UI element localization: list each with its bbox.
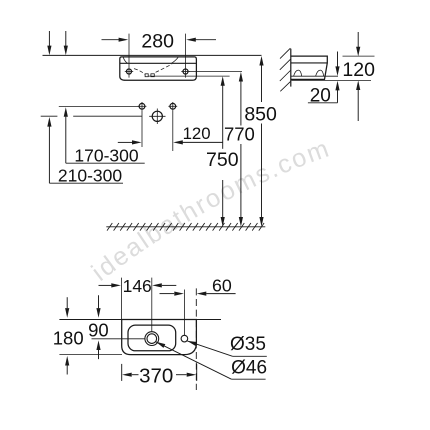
rim curve mark right: [172, 57, 179, 63]
dimension 280 right arrow: [196, 39, 217, 41]
dim 370 tick right: [196, 364, 198, 381]
drain detail square 2: [151, 74, 154, 77]
svg-text:Ø35: Ø35: [230, 334, 266, 355]
extension line 280 right: [185, 34, 187, 78]
arrows: 770: [239, 72, 243, 82]
dimension 770 line lower: [240, 144, 242, 217]
dim 370 tick left: [121, 364, 123, 381]
plan top edge extension line: [59, 319, 221, 321]
arrows: 280: [119, 38, 129, 42]
underline 20: [308, 102, 338, 104]
svg-text:20: 20: [310, 85, 331, 106]
supply cross symbol 1: [139, 103, 145, 109]
basin rim lower edge line: [120, 62, 197, 64]
dimension 850 line upper: [261, 65, 263, 102]
leader line O46: [156, 342, 232, 379]
top extension line: [343, 55, 375, 57]
underline 170-300: [66, 162, 145, 164]
dimension 850 line lower: [261, 124, 263, 218]
left top arrow 2 (170-300 upper): [65, 31, 67, 47]
inner bowl: [128, 325, 176, 351]
rim curve mark left: [123, 57, 127, 63]
dimension 120 (upper) left arrow shaft: [118, 141, 133, 143]
dim 180 up shaft: [66, 365, 68, 374]
faucet centre line: [92, 338, 146, 340]
wall hatching: [280, 48, 291, 91]
arrow: leader O46: [155, 340, 165, 348]
dimension 770 line upper: [240, 81, 242, 126]
arrows: 370: [122, 373, 132, 377]
arrows: detail 20: [335, 66, 339, 76]
svg-text:Ø46: Ø46: [231, 358, 267, 379]
svg-text:280: 280: [141, 31, 174, 53]
bowl dashed outline right: [156, 64, 172, 72]
basin section outline: [291, 56, 328, 79]
left top arrow 1 (210-300 upper): [48, 31, 50, 47]
basin inner bottom line: [291, 75, 338, 77]
dimension 750 line lower: [222, 180, 224, 217]
wall vertical line: [290, 49, 292, 87]
extension from cross2 down: [172, 111, 174, 151]
watermark idealbathrooms.com: [100, 152, 341, 282]
fixing hole cross left (front view): [127, 69, 132, 74]
dim 20 up shaft + leader: [337, 90, 339, 103]
svg-text:120: 120: [342, 59, 375, 81]
dimension 210-300 vertical line: [48, 126, 50, 183]
faucet hole outer: [145, 332, 159, 346]
basin front outline: [120, 57, 197, 80]
arrow: leader O35: [187, 339, 197, 346]
floor hatching: [107, 223, 264, 231]
svg-text:146: 146: [123, 276, 152, 296]
770 reference line: [189, 71, 242, 73]
bowl bottom line: [148, 75, 196, 77]
arrows: 120 upper: [132, 140, 142, 144]
holes reference line y=106.5: [59, 105, 139, 107]
arrows: 90: [96, 308, 100, 318]
dim 90 up shaft: [98, 350, 100, 359]
dimension 750 line upper: [222, 85, 224, 149]
fixing hole cross right (front view): [183, 69, 188, 74]
underline O35: [233, 355, 267, 357]
svg-text:170-300: 170-300: [74, 146, 138, 166]
svg-text:370: 370: [139, 365, 173, 388]
svg-text:770: 770: [224, 124, 255, 145]
ext line 60 left (small hole up): [183, 290, 185, 336]
floor line: [106, 226, 265, 228]
basin section rim line: [291, 62, 328, 64]
dim 60 left arrow shaft: [160, 293, 175, 295]
dim 370 line right: [176, 374, 187, 376]
dim 146 right arrow shaft: [162, 284, 177, 286]
dim 120 down shaft: [357, 32, 359, 47]
svg-text:90: 90: [88, 319, 109, 340]
arrows: 170-300 / 210-300: [64, 107, 68, 117]
dim 60 right arrow shaft: [206, 293, 235, 295]
svg-text:210-300: 210-300: [58, 165, 122, 185]
supply cross symbol 2: [170, 103, 176, 109]
dashed wall-side line: [195, 288, 197, 390]
svg-text:850: 850: [244, 104, 277, 126]
faucet hole inner: [147, 334, 157, 344]
svg-text:180: 180: [53, 328, 84, 349]
wall reference line (front view top): [43, 54, 262, 56]
dimension 120 (upper) right shaft to 750 line: [182, 141, 223, 143]
leader line O35: [187, 341, 232, 356]
bottom extension line: [292, 80, 372, 82]
750 reference line: [196, 75, 229, 77]
arrows: detail 120: [356, 47, 360, 57]
extension from cross1 down: [141, 111, 143, 147]
dimension 170-300 vertical line: [65, 117, 67, 164]
arrows: 750: [221, 76, 225, 86]
supply reference line y=116.2 (two segments): [41, 115, 58, 117]
small hole: [181, 335, 188, 342]
arrows: 180: [65, 308, 69, 318]
arrows: top wall: [47, 46, 51, 56]
svg-text:120: 120: [183, 124, 211, 143]
plan bottom edge extension line: [59, 354, 122, 356]
interior bump 1: [294, 70, 302, 76]
arrows: 850: [259, 56, 263, 66]
drain circle symbol: [152, 111, 162, 121]
bowl dashed outline left: [134, 69, 145, 75]
dimension 280 left arrow: [102, 39, 120, 41]
arrows: 146: [111, 283, 121, 287]
dim 120 up shaft: [357, 90, 359, 121]
svg-text:750: 750: [206, 149, 239, 171]
dim 180 down shaft: [66, 297, 68, 308]
extension line 280 left: [128, 34, 130, 78]
dim 20 down shaft: [337, 52, 339, 67]
plan basin outline: [122, 320, 197, 355]
dim 90 down shaft: [98, 295, 100, 308]
underline O46: [231, 378, 265, 380]
dim 370 line left: [132, 374, 139, 376]
ext line 146 left (basin left edge up): [120, 278, 122, 320]
ext line 146 right (faucet centre up): [151, 278, 153, 332]
underline 210-300: [49, 182, 123, 184]
arrows: 60: [174, 292, 184, 296]
svg-text:60: 60: [212, 275, 232, 295]
drain detail square 1: [145, 74, 148, 77]
interior bump 2: [316, 70, 324, 76]
dim 146 left arrow shaft: [99, 284, 112, 286]
